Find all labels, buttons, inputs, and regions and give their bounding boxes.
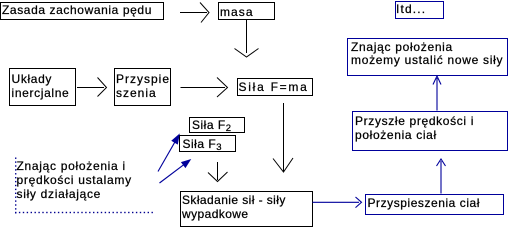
box: Znajac polozenia mozemy ustalic nowe sily: [347, 38, 508, 76]
arrow: Sila F3 down to Skladanie: [208, 162, 228, 182]
box: Uklady inercjalne: [9, 68, 76, 106]
dotted box text: Znajac polozenia i predkosci ustalamy sily dzialajace: [17, 159, 132, 202]
box: Przyspieszenia cial: [365, 194, 504, 215]
box: Zasada zachowania pedu: [0, 2, 164, 20]
arrow: Sila F=ma down to Skladanie: [273, 103, 293, 172]
box: Itd...: [395, 1, 444, 19]
box: masa: [218, 2, 275, 20]
arrow: Skladanie -> Przyspieszenia cial: [313, 197, 362, 208]
box: Przyspieszenia (Przyspie szenia): [114, 68, 171, 106]
dotted box bottom border: [15, 212, 153, 213]
dotted box left border: [15, 158, 16, 214]
arrow: Przyszle up to Znajac: [433, 76, 441, 111]
arrow: dotted box to Sila F3 (filled navy): [158, 135, 179, 172]
arrow: Przyspieszenia -> Sila F=ma: [181, 78, 228, 98]
box: Sila F2: [189, 117, 245, 134]
box: Skladanie sil - sily wypadkowe: [180, 191, 313, 228]
box: Przyszle predkosci i polozenia cial: [352, 111, 508, 151]
arrow: Przyspieszenia cial up to Przyszle: [437, 159, 446, 194]
arrow: Uklady -> Przyspieszenia: [77, 78, 107, 97]
box: Sila F=ma: [237, 78, 313, 96]
arrow: Zasada -> masa: [180, 3, 209, 23]
arrow: masa down: [235, 20, 259, 57]
box: Sila F3: [179, 135, 236, 153]
arrow: dotted box to forces (filled navy): [160, 160, 191, 183]
